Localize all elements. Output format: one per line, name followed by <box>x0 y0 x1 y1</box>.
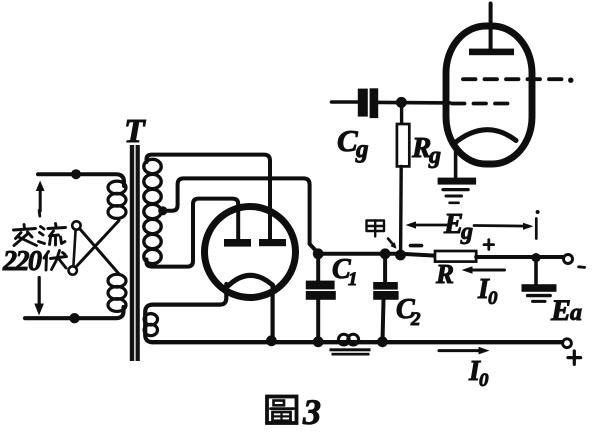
transformer filament winding <box>144 314 157 336</box>
svg-text:2: 2 <box>410 309 421 330</box>
wire negative rail <box>318 254 435 256</box>
node filament to bottom rail <box>266 335 277 346</box>
capacitor Cg <box>332 88 451 118</box>
wire V2 plate lead <box>489 4 493 51</box>
svg-text:0: 0 <box>488 288 498 309</box>
svg-text:0: 0 <box>479 370 489 391</box>
transformer core <box>130 145 140 361</box>
wire HV top to right plate <box>147 155 271 239</box>
V2 grid1 dashed <box>452 102 516 106</box>
wire bottom rail <box>153 340 563 344</box>
transformer T primary lower winding <box>108 274 126 311</box>
svg-text:g: g <box>460 219 473 245</box>
wire R to Ea node <box>476 255 562 259</box>
caption 圖 3 <box>267 397 297 424</box>
node Ea junction <box>531 253 540 262</box>
label 甲 (bias tap) <box>367 221 385 237</box>
arrow AC up <box>36 181 45 212</box>
V2 plate bar <box>469 49 514 56</box>
terminal output plus <box>563 339 572 348</box>
node grid2 dot <box>568 78 573 83</box>
wire V2 cathode lead <box>454 144 458 179</box>
output tube V2 envelope <box>446 26 532 164</box>
node Cg-Rg junction <box>396 97 407 108</box>
node C1 bottom <box>313 336 324 347</box>
svg-text:E: E <box>550 294 571 327</box>
transformer T primary upper winding <box>108 181 126 218</box>
wire selector diagonal B <box>76 221 119 268</box>
svg-text:220: 220 <box>2 246 42 277</box>
wire selector diagonal A <box>80 229 120 275</box>
node C2 top <box>380 248 391 259</box>
rectifier plate left <box>224 239 251 247</box>
wire selector link <box>73 230 75 266</box>
V2 cathode arc <box>454 130 516 144</box>
svg-text:g: g <box>355 136 369 163</box>
label minus left of R <box>411 244 422 248</box>
arrow I0 upper (left) <box>462 266 505 273</box>
voltage selector circle lower <box>69 266 77 274</box>
resistor R <box>435 251 476 262</box>
svg-text:1: 1 <box>348 269 358 290</box>
terminal output minus <box>564 255 573 264</box>
wire center tap to C1 node <box>163 178 318 253</box>
label 交流 (AC) drawn strokes <box>14 211 66 246</box>
rectifier filament arc <box>229 275 273 285</box>
svg-text:C: C <box>337 123 358 158</box>
capacitor C2 <box>373 254 398 342</box>
rectifier plate right <box>259 239 286 246</box>
node AC top junction <box>71 169 81 179</box>
voltage selector circle upper <box>72 221 80 229</box>
svg-text:R: R <box>435 259 454 289</box>
wire filament left lead <box>145 284 226 342</box>
choke L loops <box>338 334 358 345</box>
dimension Eg <box>406 210 540 239</box>
wire HV bottom to left plate <box>147 199 239 267</box>
svg-text:T: T <box>124 113 146 150</box>
label plus right of R <box>484 240 494 250</box>
node Rg bottom <box>395 250 406 261</box>
capacitor C1 <box>306 254 336 342</box>
wire AC bottom <box>25 307 124 318</box>
V2 grid2 dashed <box>463 77 562 81</box>
resistor Rg <box>397 105 409 252</box>
wire AC top <box>38 174 124 186</box>
arrow 甲 pointer <box>388 239 397 249</box>
ground V2 cathode <box>438 178 477 203</box>
rectifier tube V1 envelope <box>205 207 296 298</box>
svg-text:a: a <box>570 300 582 326</box>
transformer HV secondary winding <box>144 159 161 263</box>
choke core bars <box>330 348 371 355</box>
plus polarity mark <box>568 351 581 364</box>
arrow AC down <box>34 278 44 316</box>
arrow I0 lower (right) <box>439 347 490 355</box>
wire filament right lead <box>271 287 275 341</box>
node C2 bottom <box>377 336 388 347</box>
minus polarity mark <box>579 265 585 268</box>
ground Ea <box>522 258 557 301</box>
svg-text:g: g <box>428 143 441 169</box>
svg-text:3: 3 <box>302 392 321 432</box>
node HV center tap <box>158 206 167 215</box>
node C1 top <box>313 248 324 259</box>
node AC bottom junction <box>69 313 79 323</box>
